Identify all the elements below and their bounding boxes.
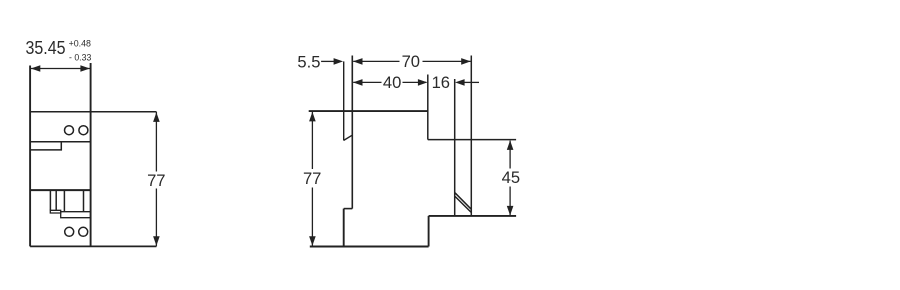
side view: terminal screw slot diagonal lower — [455, 196, 471, 212]
dimension 70: dimension line broken for text — [353, 60, 470, 62]
dimension 70: left arrowhead — [353, 58, 363, 65]
dimension 77 (side view): vertical line broken for text — [311, 111, 313, 246]
side view: DIN clip diagonal — [344, 135, 353, 140]
dimension 40: right arrowhead — [418, 79, 428, 86]
side view: front-top vertical / 40-16 extension — [427, 75, 429, 140]
side view: bottom edge + 77 extension — [310, 246, 429, 248]
svg-text:16: 16 — [432, 73, 450, 92]
front view: terminal screw bottom-right — [79, 227, 88, 236]
dimension 5.5: leader line — [321, 60, 334, 62]
front view: notch box below face line — [30, 142, 61, 150]
side view: back step — [344, 208, 353, 210]
dimension 45: top arrowhead — [507, 140, 514, 150]
front view: upper face line + 77 extension (top) — [30, 111, 156, 113]
svg-text:- 0.33: - 0.33 — [69, 52, 91, 63]
svg-text:45: 45 — [502, 168, 520, 187]
dimension 16: tail line — [465, 81, 480, 83]
front view: terminal screw top-right — [79, 126, 88, 135]
svg-text:40: 40 — [383, 73, 401, 92]
side view: front lower edge — [428, 216, 430, 247]
front view: bottom edge + 77 extension (bottom) — [30, 245, 156, 247]
front view: face line below screws — [30, 141, 91, 143]
front view: toggle vertical v2 — [55, 190, 57, 210]
front view: terminal screw top-left — [65, 126, 74, 135]
front view: terminal screw bottom-left — [65, 227, 74, 236]
dimension 35.45: left arrowhead — [31, 65, 41, 72]
svg-text:77: 77 — [303, 169, 321, 188]
front view: lower bar box — [61, 212, 91, 218]
side view: upper step line + 45 extension (top) — [428, 139, 516, 141]
side view: back edge lower — [343, 209, 345, 247]
dimension 40: dimension line broken for text — [353, 81, 426, 83]
front view: toggle ledge box — [50, 210, 60, 213]
side view: lower step line + 45 extension (bottom) — [429, 215, 516, 217]
dimension 45: bottom arrowhead — [507, 206, 514, 216]
dimension 35.45: right arrowhead — [80, 65, 90, 72]
front view: right body edge / extension line — [90, 63, 92, 246]
dimension 77 (front view): vertical dimension line, broken for text — [155, 112, 157, 247]
side view: DIN clip line / 5.5 extension — [343, 61, 345, 140]
dimension 5.5: right-pointing arrowhead — [334, 58, 344, 65]
side view: front face / 70 extension — [470, 56, 472, 216]
svg-text:77: 77 — [147, 171, 165, 190]
front view: toggle vertical v1 — [49, 190, 51, 210]
dimension 35.45: dimension line on body top — [30, 68, 91, 70]
dimension 16: left-pointing arrowhead with tail — [455, 79, 465, 86]
side view: back edge upper / 70-40 extension — [351, 56, 353, 209]
side view: top face + 77 extension — [309, 110, 428, 112]
dimension 45: vertical line broken for text — [509, 141, 511, 216]
side view: terminal screw slot diagonal upper — [455, 193, 471, 209]
front view: switch plate top line — [30, 189, 91, 191]
front view: toggle vertical v3 — [63, 190, 65, 212]
svg-text:5.5: 5.5 — [297, 53, 320, 72]
dimension 70: right arrowhead — [461, 58, 471, 65]
front view: left body edge — [29, 66, 31, 247]
dimension 77 (front view): top arrowhead — [153, 112, 160, 122]
svg-text:35.45: 35.45 — [26, 37, 66, 58]
svg-text:+0.48: +0.48 — [69, 37, 91, 48]
svg-text:70: 70 — [402, 52, 420, 71]
dimension 77 (side view): bottom arrowhead — [309, 236, 316, 246]
dimension 40: left arrowhead — [353, 79, 363, 86]
front view: toggle vertical v4 — [83, 190, 85, 212]
side view: terminal inner line / 16 extension — [454, 79, 456, 216]
dimension 77 (front view): bottom arrowhead — [153, 236, 160, 246]
dimension 77 (side view): top arrowhead — [309, 112, 316, 122]
